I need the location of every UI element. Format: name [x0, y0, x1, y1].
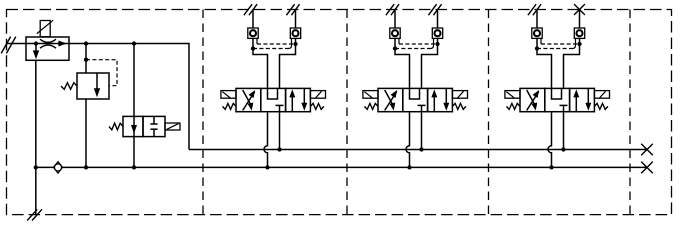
junction node DV1 on tank rail — [265, 165, 269, 169]
spring of RV1 — [61, 83, 77, 90]
solenoid valve SV1 position 2 (blocked) — [143, 116, 165, 136]
pilot operated check valve CVA3 — [532, 28, 542, 38]
section separator line 3 (dashed) — [488, 10, 490, 215]
arrowhead: bypass flow down inside FC1 — [35, 44, 37, 53]
pilot line (dashed) CVB3 to line A — [537, 48, 573, 50]
wire: DV3 pressure port down to pressure rail — [563, 112, 565, 150]
flow control valve FC1 body — [26, 37, 69, 60]
directional valve DV1 square c (parallel arrows) — [286, 88, 311, 111]
pilot stub of CVB1 — [289, 38, 292, 48]
relief valve RV1 body — [77, 73, 109, 99]
directional valve DV1 square b (centre, A-B bridge, T blocked) — [261, 88, 286, 111]
directional valve DV3 square c (parallel arrows) — [570, 88, 595, 111]
plug X on work port B3 at boundary — [574, 4, 585, 15]
junction node DV2 on pressure rail — [419, 147, 423, 151]
spring of SV1 — [109, 123, 123, 130]
pilot line (dashed) CVA2 to line B — [399, 43, 438, 45]
boundary crossing mark port A2 — [386, 4, 394, 15]
solenoid actuator left of DV1 — [221, 91, 236, 99]
junction node SV1 outlet on tank rail — [132, 165, 136, 169]
wire: DV1 pressure port down to pressure rail — [279, 112, 281, 150]
pilot stub of CVA1 — [256, 38, 258, 44]
pilot stub of CVA2 — [398, 38, 400, 44]
junction node DV3 on tank rail — [549, 165, 553, 169]
solenoid actuator right of DV1 — [310, 91, 325, 99]
junction node on supply at RV1 branch — [84, 41, 88, 45]
solenoid actuator right of DV2 — [452, 91, 467, 99]
wire: CVA3 down and jog to valve port A — [537, 38, 552, 88]
pilot stub of CVA3 — [540, 38, 542, 44]
boundary crossing mark port A1 — [244, 4, 252, 15]
wire: CVB3 down and jog to valve port B — [564, 38, 580, 88]
arrowhead: regulated flow to right inside FC1 — [58, 41, 66, 47]
pilot operated check valve CVB2 — [432, 28, 442, 38]
pilot line (dashed) CVA1 to line B — [257, 43, 296, 45]
boundary crossing mark port A3 — [528, 4, 536, 15]
boundary crossing mark at tank outlet — [27, 209, 37, 220]
plug X on tank rail end — [641, 162, 653, 174]
wire: tank rail T start segment — [36, 166, 647, 168]
pilot stub of CVB2 — [431, 38, 434, 48]
directional valve DV1 square a (crossed arrows) — [236, 88, 261, 111]
junction node on supply at SV1 branch — [132, 41, 136, 45]
directional valve DV3 square b (centre, A-B bridge, T blocked) — [545, 88, 570, 111]
pilot operated check valve CVB1 — [290, 28, 300, 38]
wire: pump supply line P from boundary to corner — [7, 44, 190, 150]
spring right of DV1 — [310, 103, 324, 109]
junction node pilot on line A3 — [535, 46, 539, 50]
pilot line (dashed) CVA3 to line B — [541, 43, 580, 45]
pilot line (dashed) CVB1 to line A — [253, 48, 289, 50]
solenoid actuator right of DV3 — [594, 91, 609, 99]
junction node on RV1 inlet (pilot tap) — [84, 58, 88, 62]
solenoid actuator left of DV2 — [363, 91, 378, 99]
spring left of DV1 — [223, 103, 237, 109]
junction node pilot on line A1 — [251, 46, 255, 50]
proportional adjust solenoid on FC1 — [40, 21, 50, 37]
solenoid actuator left of DV3 — [505, 91, 520, 99]
junction node DV3 on pressure rail — [561, 147, 565, 151]
wire: branch through unloading valve SV1 to tank rail — [133, 44, 135, 168]
wire: DV1 tank port down, hop over pressure rail, to tank rail — [264, 112, 268, 168]
wire: CVA2 down and jog to valve port A — [395, 38, 410, 88]
junction node RV1 outlet on tank rail — [84, 165, 88, 169]
spring left of DV2 — [365, 103, 379, 109]
wire: RV1 outlet to tank rail — [85, 99, 87, 167]
section separator line 4 (dashed) — [629, 10, 631, 215]
directional valve DV2 square c (parallel arrows) — [428, 88, 453, 111]
wire: DV3 tank port down, hop over pressure rail, to tank rail — [548, 112, 551, 168]
wire: work port A2 to boundary — [394, 10, 396, 29]
pilot operated check valve CVB3 — [574, 28, 584, 38]
boundary crossing mark port B2 — [428, 4, 436, 15]
wire: pressure rail from supply corner to end plate — [189, 149, 647, 151]
wire: work port A1 to boundary — [252, 10, 254, 29]
wire: DV2 tank port down, hop over pressure rail, to tank rail — [406, 112, 409, 168]
wire: DV2 pressure port down to pressure rail — [421, 112, 423, 150]
wire: work port B3 to boundary — [579, 10, 581, 29]
wire: work port B1 to boundary — [295, 10, 297, 29]
spring left of DV3 — [507, 103, 521, 109]
wire: work port B2 to boundary — [437, 10, 439, 29]
test point coupling on tank rail — [54, 162, 63, 174]
boundary crossing mark at supply inlet — [1, 37, 10, 54]
wire: branch to relief valve RV1 inlet — [85, 44, 87, 74]
junction node DV1 on pressure rail — [277, 147, 281, 151]
junction node DV2 on tank rail — [407, 165, 411, 169]
pilot operated check valve CVA2 — [390, 28, 400, 38]
pilot operated check valve CVA1 — [248, 28, 258, 38]
wire: FC1 bypass down to tank boundary — [35, 60, 37, 214]
junction node pilot on line B1 — [293, 42, 297, 46]
arrow inside RV1 (flow blocked to tank) — [96, 73, 98, 89]
wire: work port A3 to boundary — [536, 10, 538, 29]
directional valve DV3 square a (crossed arrows) — [520, 88, 545, 111]
solenoid actuator of SV1 — [165, 123, 180, 130]
flow restrictor arcs inside FC1 — [40, 39, 56, 42]
section separator line 1 (dashed) — [202, 10, 204, 215]
wire: CVB1 down and jog to valve port B — [280, 38, 296, 88]
pilot line (dashed) CVB2 to line A — [395, 48, 431, 50]
boundary crossing mark port B1 — [286, 4, 294, 15]
section separator line 2 (dashed) — [346, 10, 348, 215]
spring right of DV3 — [594, 103, 608, 109]
solenoid valve SV1 position 1 (open, flow down) — [123, 116, 143, 136]
wire: CVB2 down and jog to valve port B — [422, 38, 438, 88]
junction node pilot on line B3 — [577, 42, 581, 46]
directional valve DV2 square b (centre, A-B bridge, T blocked) — [403, 88, 428, 111]
pilot line (dashed) of RV1 — [86, 60, 117, 86]
pilot stub of CVB3 — [573, 38, 576, 48]
junction node tank rail at bypass line — [34, 165, 38, 169]
junction node pilot on line B2 — [435, 42, 439, 46]
junction node pilot on line A2 — [393, 46, 397, 50]
spring right of DV2 — [452, 103, 466, 109]
plug X on pressure rail end — [641, 144, 653, 156]
wire: CVA1 down and jog to valve port A — [253, 38, 268, 88]
directional valve DV2 square a (crossed arrows) — [378, 88, 403, 111]
junction node inside FC1 — [34, 41, 38, 45]
